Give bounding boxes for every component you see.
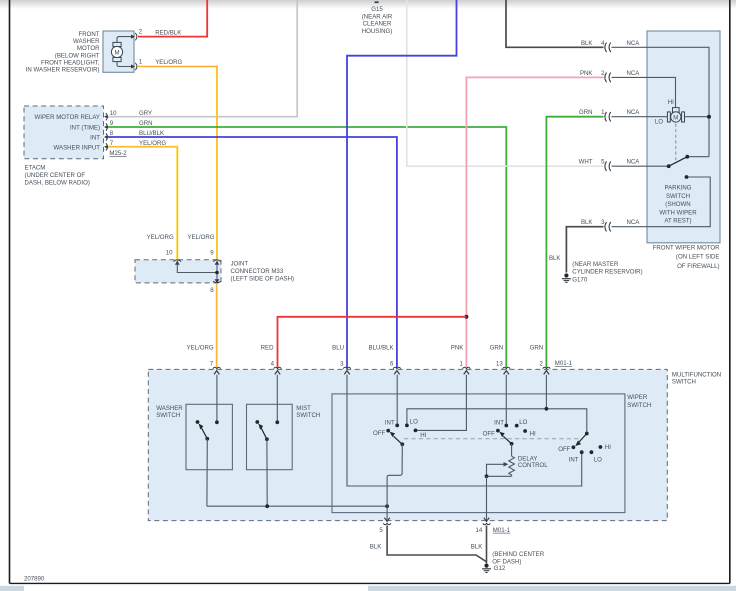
svg-text:(LEFT SIDE OF DASH): (LEFT SIDE OF DASH) (231, 276, 295, 283)
svg-text:SWITCH: SWITCH (296, 412, 320, 419)
wire GRN from wiper motor pin 1 left then down to multifunction pin 2 (546, 117, 603, 369)
ground G170 symbol (562, 273, 571, 282)
ETACM pin labels inside (35, 114, 101, 151)
ETACM pin 10 connector symbol (106, 113, 108, 120)
svg-text:FRONT WIPER MOTOR: FRONT WIPER MOTOR (653, 244, 720, 251)
svg-text:LO: LO (594, 457, 602, 464)
M33 pin 10 entry arrow (174, 260, 182, 262)
svg-text:INT: INT (90, 135, 100, 142)
svg-text:BLK: BLK (581, 40, 593, 47)
svg-text:CLEANER: CLEANER (363, 21, 392, 28)
svg-text:SWITCH: SWITCH (156, 412, 180, 419)
svg-text:INT: INT (385, 420, 395, 427)
svg-text:OFF: OFF (483, 430, 495, 437)
wiper motor pin 5 row labels: WHT 5 (( NCA (579, 159, 669, 171)
mechanical dashed link from motor to parking switch (675, 124, 677, 162)
svg-text:PARKING: PARKING (665, 185, 692, 192)
wiper switch group3 pivot dot (585, 432, 589, 436)
washer/mist common rail to pin 5 (207, 505, 387, 507)
parking switch blade (669, 157, 688, 167)
svg-text:FRONT: FRONT (79, 31, 100, 38)
washer switch common wire down (206, 439, 208, 506)
group2 pivot dot (510, 442, 514, 446)
svg-text:M01-1: M01-1 (493, 527, 511, 534)
wire YEL/ORG from M33 pin 8 down to multifunction pin 7 (216, 284, 218, 368)
washer switch pivot dot (205, 437, 209, 441)
junction dot delay to pin 14 (485, 474, 489, 478)
delay control resistor R zigzag (509, 456, 515, 476)
svg-text:SWITCH: SWITCH (666, 193, 690, 200)
svg-text:BLK: BLK (471, 544, 483, 551)
wire YEL/ORG from washer motor pin 1 down to joint connector M33 pin 9 (138, 67, 217, 260)
pin 3 wire into box down and right to group3 INT riser (347, 375, 582, 486)
pin 2 wire down to LO rail (545, 375, 547, 409)
wire GRN from ETACM pin 9 right then down to multifunction pin 13 (108, 127, 506, 368)
front washer motor label (26, 31, 100, 74)
wire RED branch from PNK junction left then down to multifunction pin 4 (278, 317, 467, 368)
parking switch lower contact dot (685, 175, 689, 179)
junction dot at pin 5 node (385, 504, 389, 508)
svg-text:(BEHIND CENTER: (BEHIND CENTER (492, 551, 544, 558)
svg-text:NCA: NCA (627, 159, 641, 166)
svg-text:HI: HI (605, 444, 611, 451)
svg-text:CONTROL: CONTROL (518, 462, 548, 469)
svg-text:WHT: WHT (579, 159, 593, 166)
diagram frame bottom border (10, 582, 730, 584)
svg-text:(BELOW RIGHT: (BELOW RIGHT (55, 52, 100, 59)
svg-text:MULTIFUNCTION: MULTIFUNCTION (672, 371, 721, 378)
svg-text:HI: HI (420, 432, 426, 439)
svg-text:GRN: GRN (530, 344, 544, 351)
wire BLU from top edge jog left down to multifunction pin 3 (347, 0, 457, 368)
multifunction switch dashed box (148, 369, 667, 520)
washer motor pin 2 connector symbol (131, 35, 135, 39)
svg-text:M25-2: M25-2 (109, 150, 127, 157)
svg-text:10: 10 (166, 250, 173, 257)
bottom scrollbar track segment right (368, 586, 736, 591)
motor M1 washer: brush blocks and circle (113, 42, 121, 46)
svg-text:MOTOR: MOTOR (77, 45, 100, 52)
wiper motor pin 2 row labels: PNK 2 (( NCA (580, 70, 676, 108)
svg-text:WASHER: WASHER (73, 38, 100, 45)
svg-text:NCA: NCA (627, 109, 641, 116)
wiper switch inner box (332, 394, 625, 513)
group3 blade with arrow (579, 434, 587, 443)
M33 pin 9 entry arrow (213, 260, 221, 262)
diagram frame right border (729, 0, 731, 583)
washer motor internal wire to pin 1 (117, 62, 132, 67)
bottom pin 14 exit symbol (483, 518, 491, 525)
svg-text:LO: LO (519, 419, 527, 426)
delay wiper arrow line (487, 464, 505, 476)
svg-text:JOINT: JOINT (231, 260, 249, 267)
svg-text:YEL/ORG: YEL/ORG (155, 59, 182, 66)
wiper switch group2 contact dots (504, 424, 508, 428)
washer switch box (186, 404, 232, 469)
svg-text:(NEAR AIR: (NEAR AIR (362, 13, 393, 20)
svg-text:RED: RED (261, 344, 274, 351)
wiper motor wire M to common rail (685, 116, 709, 118)
wire WHT from top edge down then right to wiper motor pin 5 (407, 0, 604, 166)
junction dot mist common (265, 504, 269, 508)
washer switch blade with arrow (201, 427, 207, 438)
washer motor internal wire to pin 2 (117, 37, 132, 43)
wire BLK from wiper motor pin 3 left then down to ground G170 (566, 227, 603, 273)
svg-text:(SHOWN: (SHOWN (665, 201, 690, 208)
wiper motor M circle (671, 112, 681, 122)
mist switch pin4 terminal dot (275, 420, 279, 424)
wiper motor pin 3 row labels: BLK 3 (( NCA (581, 177, 710, 232)
svg-text:DASH, BELOW RADIO): DASH, BELOW RADIO) (25, 180, 90, 187)
svg-text:G170: G170 (572, 276, 588, 283)
svg-text:YEL/ORG: YEL/ORG (147, 234, 174, 241)
M33 internal wire pin9 down to pin 8 (216, 264, 218, 281)
svg-text:G15: G15 (371, 6, 383, 13)
LO rail from group1 LO to group3 pivot (407, 409, 587, 432)
washer motor pin 1 connector symbol (131, 64, 135, 68)
svg-text:LO: LO (410, 419, 418, 426)
mist switch fixed contact dot (255, 420, 259, 424)
wire RED/BLK from washer motor pin 2 up to top edge (138, 0, 207, 37)
svg-text:M: M (673, 114, 678, 121)
wire YEL/ORG from ETACM pin 7 right then down to M33 pin 10 (108, 147, 177, 260)
mist switch blade with arrow (261, 428, 267, 440)
svg-text:BLU/BLK: BLU/BLK (369, 344, 394, 351)
BLK wire pin 14 to G12 (486, 526, 488, 564)
svg-text:CONNECTOR M33: CONNECTOR M33 (231, 268, 284, 275)
wiper switch group1 contact dots (395, 424, 399, 428)
svg-text:OF FIREWALL): OF FIREWALL) (677, 263, 719, 270)
ground G12 symbol (482, 564, 491, 573)
pin 7 wire into washer switch (216, 375, 218, 421)
svg-text:5: 5 (379, 527, 383, 534)
ETACM pin 9 connector symbol (106, 123, 108, 130)
wiper motor pin 4 row labels: BLK 4 (( NCA (581, 40, 709, 157)
svg-text:OFF: OFF (373, 430, 385, 437)
ground G15 symbol sliver at top edge (375, 1, 379, 3)
resistor bottom to junction (487, 475, 512, 477)
svg-text:NCA: NCA (627, 70, 641, 77)
svg-text:SWITCH: SWITCH (627, 402, 651, 409)
svg-text:YEL/ORG: YEL/ORG (187, 234, 214, 241)
pin 6 wire down to group1 INT (396, 375, 398, 424)
svg-text:(UNDER CENTER OF: (UNDER CENTER OF (25, 172, 86, 179)
svg-text:INT (TIME): INT (TIME) (70, 125, 100, 132)
svg-text:PNK: PNK (580, 70, 593, 77)
svg-text:GRN: GRN (490, 344, 504, 351)
ETACM dashed box (24, 106, 104, 159)
parking switch pivot dot (667, 164, 671, 168)
svg-text:207890: 207890 (24, 576, 45, 583)
svg-text:PNK: PNK (451, 344, 464, 351)
svg-text:YEL/ORG: YEL/ORG (187, 344, 214, 351)
svg-text:WIPER MOTOR RELAY: WIPER MOTOR RELAY (35, 114, 100, 121)
svg-text:INT: INT (494, 420, 504, 427)
svg-text:WITH WIPER: WITH WIPER (659, 209, 697, 216)
pin 4 wire into mist switch (276, 375, 278, 421)
diagram frame left border (9, 0, 11, 583)
svg-text:(NEAR MASTER: (NEAR MASTER (572, 261, 619, 268)
G15 caption (362, 6, 393, 35)
svg-text:14: 14 (476, 527, 483, 534)
svg-text:GRN: GRN (579, 109, 593, 116)
svg-text:WASHER INPUT: WASHER INPUT (54, 144, 101, 151)
svg-text:WIPER: WIPER (627, 394, 648, 401)
top pin entry symbols (arcs + chevron) for pins 7,4,3,6,1,13,2 (213, 367, 550, 368)
svg-text:LO: LO (655, 118, 663, 125)
group3 contact dots OFF INT LO HI (572, 445, 576, 449)
M33 pin 8 exit arrow (213, 281, 221, 283)
parking switch upper contact dot (685, 155, 689, 159)
pin 1 wire down to group1 HI rail (417, 375, 467, 431)
pin 14 wire down (486, 476, 488, 520)
wire PNK from wiper motor pin 2 left then down to multifunction pin 1 (466, 77, 603, 368)
washer switch pin7 terminal dot (215, 420, 219, 424)
svg-text:HI: HI (530, 431, 536, 438)
group2 blade with arrow (503, 436, 511, 444)
svg-text:BLK: BLK (581, 219, 593, 226)
svg-text:SWITCH: SWITCH (672, 379, 696, 386)
wire GRY from ETACM pin 10 right then up to top edge (108, 0, 297, 117)
group1 common wire jog to pin5 node (387, 444, 402, 520)
junction dot pin2 on LO rail (545, 407, 549, 411)
wiper motor M top terminal block (673, 108, 680, 113)
wire BLK from top edge down then right to wiper motor pin 4 (506, 0, 604, 47)
mist switch box (247, 404, 293, 469)
svg-text:M01-1: M01-1 (555, 360, 573, 367)
group1 blade with arrow (394, 436, 403, 444)
joint connector M33 dashed box (135, 260, 221, 283)
svg-text:NCA: NCA (627, 40, 641, 47)
mechanical gang dashed link between wiper switch blades (404, 438, 580, 440)
BLK wire pin 5 to G12 (387, 526, 486, 562)
junction dot PNK/RED branch (464, 315, 468, 319)
svg-text:AT REST): AT REST) (664, 218, 691, 225)
svg-text:13: 13 (496, 361, 503, 368)
pin 13 wire down to group2 INT (505, 375, 507, 424)
parking switch caption (659, 185, 697, 225)
group2 common wire down to delay resistor (511, 444, 513, 456)
wiper motor pin 1 row labels: GRN 1 (( NCA (579, 109, 667, 121)
junction dot at motor rail (707, 115, 711, 119)
svg-text:ETACM: ETACM (25, 165, 46, 172)
M33 junction dot (215, 271, 219, 275)
svg-text:HI: HI (668, 99, 674, 106)
front washer motor box (103, 31, 134, 72)
front wiper motor caption (653, 244, 720, 270)
bottom scrollbar track segment left (0, 586, 24, 591)
mist switch common wire down (266, 439, 268, 506)
bottom pin 5 exit symbol (383, 518, 391, 525)
svg-text:RED/BLK: RED/BLK (155, 29, 181, 36)
svg-text:CYLINDER RESERVOIR): CYLINDER RESERVOIR) (572, 269, 642, 276)
svg-text:HOUSING): HOUSING) (362, 28, 392, 35)
ETACM pin 7 connector symbol (106, 143, 108, 150)
mist switch pivot dot (265, 437, 269, 441)
svg-text:FRONT HEADLIGHT,: FRONT HEADLIGHT, (41, 59, 100, 66)
svg-text:IN WASHER RESERVOIR): IN WASHER RESERVOIR) (26, 67, 100, 74)
svg-text:INT: INT (569, 457, 579, 464)
group1 pivot dot (400, 442, 404, 446)
svg-text:BLK: BLK (370, 544, 382, 551)
wire BLU/BLK from ETACM pin 8 right then down to multifunction pin 6 (108, 137, 397, 368)
wiper motor M side brackets (667, 112, 670, 122)
svg-text:G12: G12 (494, 565, 506, 572)
toolbar gradient strip (0, 0, 736, 9)
parking switch upper contact line (687, 156, 709, 158)
ETACM pin 8 connector symbol (106, 133, 108, 140)
washer switch fixed contact dot (196, 420, 200, 424)
svg-text:BLU: BLU (332, 344, 344, 351)
svg-text:NCA: NCA (627, 219, 641, 226)
svg-text:OFF: OFF (558, 446, 570, 453)
svg-text:(ON LEFT SIDE: (ON LEFT SIDE (676, 254, 720, 261)
front wiper motor box (647, 31, 720, 243)
svg-text:BLK: BLK (549, 255, 561, 262)
M33 internal wire pin10 to junction (177, 264, 217, 273)
svg-text:M: M (114, 49, 119, 56)
